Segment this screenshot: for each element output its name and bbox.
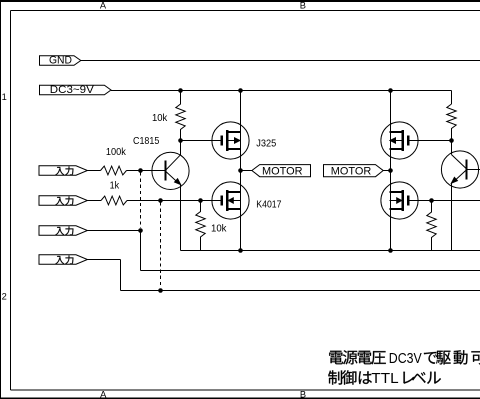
svg-text:B: B <box>300 0 306 10</box>
svg-text:B: B <box>300 390 306 399</box>
svg-text:MOTOR: MOTOR <box>331 165 372 177</box>
svg-text:K4017: K4017 <box>256 200 281 211</box>
svg-text:10k: 10k <box>152 113 168 124</box>
svg-text:MOTOR: MOTOR <box>262 165 303 177</box>
svg-text:GND: GND <box>49 55 72 67</box>
svg-text:2: 2 <box>2 292 7 302</box>
svg-text:J325: J325 <box>256 139 276 150</box>
svg-text:DC3V: DC3V <box>389 350 423 367</box>
svg-text:A: A <box>100 0 107 10</box>
svg-text:TTL: TTL <box>371 370 398 387</box>
svg-text:A: A <box>100 389 107 399</box>
svg-text:1: 1 <box>2 92 7 102</box>
svg-text:DC3~9V: DC3~9V <box>50 84 95 96</box>
svg-text:10k: 10k <box>211 224 227 235</box>
svg-text:1k: 1k <box>110 181 120 192</box>
svg-text:100k: 100k <box>106 147 127 158</box>
svg-text:C1815: C1815 <box>133 136 159 147</box>
